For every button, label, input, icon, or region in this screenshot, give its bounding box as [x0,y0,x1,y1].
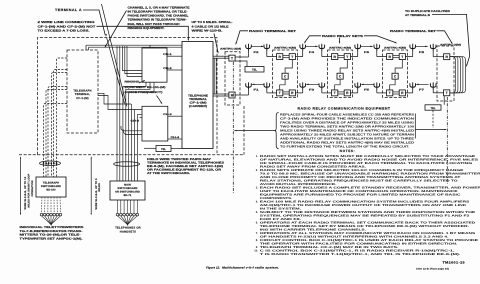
antenna: left terminal transmit [246,44,252,51]
svg-text:BD-100: BD-100 [46,188,56,191]
paragraph: radio relay communication equipment description [280,112,415,148]
terminal A outer dashed enclosure (left/top/right edges) [38,38,218,155]
receiver R top-left of relay #1 [277,54,283,60]
svg-text:BD-71: BD-71 [124,194,132,197]
svg-text:RINGING EQUIPMENT.: RINGING EQUIPMENT. [128,26,165,30]
dimension line: 16-mile loop span [20,158,22,215]
antenna: right terminal transmit [430,82,436,89]
dashed vertical from AN/TRC-3 set down to site boundary [243,106,245,155]
wire: stub above ringing unit1 a [149,45,151,48]
control box C of relay #2 [337,73,343,79]
svg-text:10.: 10. [254,250,258,253]
radio link F2 (A to B) [251,45,263,47]
svg-text:WIRE W-110-B.: WIRE W-110-B. [192,28,223,32]
leader from channel note to telegraph terminal [105,11,126,47]
terminal A site boundary bottom dashed edge [19,154,244,156]
svg-text:TO FURTHER EXTEND THE TOTAL LE: TO FURTHER EXTEND THE TOTAL LENGTH OF TH… [280,144,409,148]
svg-text:AGO 10-B (Face page 45): AGO 10-B (Face page 45) [416,267,449,270]
svg-text:TYPEWRITER SET AN/PGC-1(M).: TYPEWRITER SET AN/PGC-1(M). [20,237,83,240]
wire: ringing unit1 drop b [126,82,150,181]
svg-text:6.: 6. [256,222,258,225]
antenna SW of relay #1 [264,82,270,89]
svg-text:T: T [231,56,233,60]
wire: bundle riser into ringing unit2 b [140,117,143,119]
wire: T down to C of relay #3 [395,60,402,74]
box: TEL (telephone EE-8 at terminal A) [156,146,171,152]
wire: stub into ringing unit2 d [124,130,143,135]
radio relay set AN/TRC-4(M) #2 dashed enclosure [328,50,353,98]
radio set: terminal set AN/TRC-3 (left) dashed enclosure [225,52,240,105]
leader from duplicate-facilities note to cable bundle [432,14,470,65]
wire+mast NW antenna to R of relay #1 [266,50,268,56]
wire+mast SE antenna to R of relay #2 [357,89,359,93]
svg-text:TEL: TEL [431,107,436,110]
svg-text:TM2601-29: TM2601-29 [443,260,466,264]
transmitter T top-right of relay #1 [289,54,295,60]
antenna SE of relay #2 [355,82,361,89]
wire: stub into ringing unit2 c [121,126,142,131]
antenna NW of relay #3 [374,44,380,51]
svg-text:T: T [346,55,348,59]
svg-text:MITTERS TG-26-(M),OR TELE-: MITTERS TG-26-(M),OR TELE- [20,234,81,237]
svg-text:T IS RADIO TRANSMITTER T-14(M): T IS RADIO TRANSMITTER T-14(M)/TRC-1, AN… [260,253,461,256]
svg-text:CF-2-(M): CF-2-(M) [76,97,89,100]
svg-text:1.: 1. [256,155,258,158]
box: TEL (telephone EE-8 at right radio terminal) [425,105,441,110]
svg-text:5.: 5. [256,211,258,214]
leader radio-relay-sets right arrow [364,36,396,43]
wire: ringing unit1 drop c [129,82,154,181]
box: telegraph switchboard BD-100 [36,177,66,197]
antenna: right terminal receive [430,44,436,51]
wire+mast: R to antenna [235,94,248,96]
wire: channel 3 [168,115,182,117]
wire: T-R coupling bottom of relay #1 [283,91,289,93]
wire: stub above ringing unit1 b [152,46,154,49]
wire: spiral-4 riser a [213,58,215,94]
wire: T-R coupling bottom of relay #2 [338,91,344,93]
wire: channel 1 [167,55,182,57]
svg-text:RADIO RELAY COMMUNICATION EQUI: RADIO RELAY COMMUNICATION EQUIPMENT [298,107,391,111]
svg-text:HANDSETS: HANDSETS [120,230,136,233]
svg-text:(VOICE FREQUENCY): (VOICE FREQUENCY) [125,91,163,94]
wire+mast NE antenna to T of relay #3 [412,50,414,56]
wire+mast NW antenna to R of relay #2 [321,50,323,56]
wire: 2-wire line CF-2 to CF-1 (pair) [86,44,182,46]
antenna NW of relay #2 [319,44,325,51]
wires: telegraph subscriber loops (nested dashed bundle) [57,58,68,177]
leader: radio relay equipment note to order wire (right arrow) [415,129,446,131]
svg-text:T: T [291,55,293,59]
leader radio-relay-sets left arrow [305,36,321,43]
transmitter T (left terminal) [229,55,235,61]
leader radio-terminal-set-left [236,31,248,44]
label (rotated): wire W-110-B up to 16 miles short loop [24,173,34,209]
wire: channel 4 [168,138,182,140]
wire+mast SE antenna to R of relay #3 [412,89,414,93]
radio relay set AN/TRC-4(M) #1 dashed enclosure [273,50,298,98]
radio link F6 (A to B) [360,45,372,47]
label (rotated): wire W-110-B up to 5 miles [95,178,101,210]
receiver R (right terminal) [444,54,450,60]
receiver R top-left of relay #2 [332,54,338,60]
svg-text:AN/TRC-3(M): AN/TRC-3(M) [220,48,241,51]
wire: R-T coupling top of relay #3 [393,55,399,57]
radio link F1 (B to A) [252,83,264,85]
svg-text:RADIO TERMINAL SET: RADIO TERMINAL SET [249,29,296,33]
svg-text:CH-2: CH-2 [163,67,172,70]
svg-text:TERMINAL: TERMINAL [75,93,91,96]
leader ringing label to lower unit [157,96,162,104]
radio relay set AN/TRC-4(M) #3 dashed enclosure [383,50,408,98]
wire+mast NW antenna to R of relay #3 [376,50,378,56]
dashed drop below right TEL [432,110,434,128]
wire: R-T coupling top of relay #2 [338,55,344,57]
svg-text:7.: 7. [256,232,258,235]
leader radio-terminal-set-right [437,31,453,43]
leader: radio relay equipment note to order wire (left arrow) [235,130,277,132]
receiver R bottom-right of relay #1 [289,90,295,96]
radio link F7 (B to A) [417,83,429,85]
svg-text:AT THE SWITCHBOARD.: AT THE SWITCHBOARD. [147,172,190,175]
svg-text:T: T [446,91,448,95]
antenna SE of relay #3 [410,82,416,89]
antenna NW of relay #1 [264,44,270,51]
leader radio-relay-sets middle arrow [339,38,341,43]
wire: bundle riser into ringing unit2 a [137,115,142,181]
box: main switchboard BD-71 [110,181,145,200]
svg-text:T: T [334,91,336,95]
svg-text:RADIO RELAY SETS: RADIO RELAY SETS [322,34,363,38]
wire: feed into ringing unit1 b [125,46,142,74]
svg-text:CH-3: CH-3 [131,119,140,122]
wire: long leader diagonal 2 into channel bundle [107,38,125,103]
brace for equipment paragraph [275,112,279,148]
wire: telegraph terminal to ringing unit2 link [98,96,142,110]
svg-text:TEL: TEL [161,148,166,151]
wire: T-R coupling bottom of relay #3 [393,91,399,93]
svg-text:TEL: TEL [252,69,257,72]
wire: T to TEL [233,60,235,62]
box: TEL (telephone EE-8 at left radio terminal) [245,67,264,73]
antenna SW of relay #3 [374,82,380,89]
svg-text:T: T [279,91,281,95]
receiver R bottom-right of relay #2 [344,90,350,96]
svg-text:RADIO TERMINAL SET: RADIO TERMINAL SET [390,29,436,33]
antenna SE of relay #1 [300,82,306,89]
svg-text:TO EXCEED A 7-DB LOSS.: TO EXCEED A 7-DB LOSS. [38,28,90,32]
transmitter T bottom-left of relay #3 [387,90,393,96]
svg-text:8.: 8. [256,239,258,242]
svg-text:TG-7-B,REPERFORATOR-TRANS-: TG-7-B,REPERFORATOR-TRANS- [20,230,83,233]
svg-text:OPERATION: OPERATION [31,180,34,196]
transmitter T top-right of relay #3 [399,54,405,60]
wires: teletypewriter fan with instrument rings [41,197,44,213]
transmitter T (right terminal) [444,90,450,96]
wires: carrier bundle long verticals [116,46,118,181]
wires: spiral-4 bundle to duplicate facilities at terminal B [450,57,455,93]
svg-text:CH-4: CH-4 [171,136,180,139]
wire: spiral-4 riser b [215,58,217,94]
control box C of relay #1 [282,73,288,79]
antenna SW of relay #2 [319,82,325,89]
wire: R-T coupling top of relay #1 [283,55,289,57]
wire: long leader diagonal 1 into channel bundle [102,4,127,106]
wire: feed into ringing unit1 a [122,46,142,71]
antenna NE of relay #1 [300,44,306,51]
wire: ringing unit1 drop a [123,82,146,181]
radio link F5 (B to A) [362,83,374,85]
leader ringing label to upper unit [139,81,145,83]
wire: 4-wire pair telephone terminal to R [213,93,229,95]
wire: EE-8 order wire (dash-dot) from left radio terminal [232,62,234,194]
svg-text:TO DUPLICATE FACILITIES: TO DUPLICATE FACILITIES [405,10,450,13]
wire+mast SW antenna to T of relay #2 [321,89,323,93]
transmitter T top-right of relay #2 [344,54,350,60]
wire: T to TEL (right) [443,96,445,105]
svg-text:AN/TRC-4(M): AN/TRC-4(M) [329,46,351,49]
svg-text:NOTES:: NOTES: [340,149,356,153]
svg-text:RINGING: RINGING [125,80,140,83]
cable tie on telegraph loop bundle [40,161,61,166]
receiver R (left terminal) [229,92,235,98]
wire+mast: antenna to T (right terminal) [432,89,434,93]
antenna: left terminal receive [246,82,252,89]
wire+mast NE antenna to T of relay #1 [302,50,304,56]
radio link F4 (A to B) [305,45,317,47]
svg-text:T: T [401,55,403,59]
svg-text:TELEPHONES OR: TELEPHONES OR [115,227,141,230]
svg-text:2.: 2. [256,169,258,172]
wire+mast SW antenna to T of relay #1 [266,89,268,93]
svg-text:INDIVIDUAL TELETYPEWRITERS: INDIVIDUAL TELETYPEWRITERS [20,226,84,229]
svg-text:TELEGRAPH: TELEGRAPH [73,90,91,93]
svg-text:TERMINAL A: TERMINAL A [55,8,82,12]
wire: TEL to telephone terminal [171,148,182,150]
svg-text:3.: 3. [256,187,258,190]
cable tie on carrier bundle [114,162,140,167]
wire+mast: antenna to R (right terminal) [432,50,434,56]
svg-text:Figure 12.: Figure 12. [206,265,220,269]
svg-text:4.: 4. [256,201,258,204]
antenna NE of relay #2 [355,44,361,51]
transmitter T bottom-left of relay #1 [277,90,283,96]
svg-text:AT TERMINAL B: AT TERMINAL B [405,14,430,17]
svg-text:AN/TRC-4(M): AN/TRC-4(M) [274,46,296,49]
transmitter T bottom-left of relay #2 [332,90,338,96]
wire: C down to T of relay #1 [280,79,285,90]
leader from 2-wire note to 2-wire pair [97,26,189,40]
receiver R top-left of relay #3 [387,54,393,60]
box: ringing equipment upper unit [142,48,167,82]
radio link F3 (B to A) [307,83,319,85]
wire+mast SE antenna to R of relay #1 [302,89,304,93]
svg-text:WIRE W-110-B, UP TO 5: WIRE W-110-B, UP TO 5 [95,178,98,210]
wire+mast SW antenna to T of relay #3 [376,89,378,93]
wire: 4-wire pair telephone terminal to T [213,55,229,57]
antenna NE of relay #3 [410,44,416,51]
box: telephone terminal CF-1-(M) carrier [182,42,213,149]
wire: T down to C of relay #1 [285,60,292,74]
svg-text:(CARRIER): (CARRIER) [189,105,207,108]
svg-text:Multichannel v-h-f radio syste: Multichannel v-h-f radio system. [222,265,279,269]
radio link F8 (A to B) [415,45,427,47]
notes list 1-10 [254,155,480,256]
box: ringing equipment lower unit [142,106,168,141]
leader from TERMINAL A to terminal-A dashed enclosure [83,10,105,35]
wire+mast: T to antenna [235,56,248,58]
svg-text:MILES: MILES [98,183,101,192]
dimension line: 5-mile phone span [90,158,92,215]
wire: feed into ringing unit1 c [127,46,142,77]
radio set: terminal set AN/TRC-3 (right) dashed enclosure [437,46,454,101]
wire: EE-8 order wire (dash-dot) right [446,97,448,185]
box: telegraph terminal CF-2-(M) [67,50,98,133]
leader from spiral-4 note to cable pair [214,34,218,53]
wire: C down to T of relay #2 [335,79,340,90]
svg-text:T: T [389,91,391,95]
svg-text:CH-1: CH-1 [163,53,172,56]
right rule of equipment paragraph [414,114,416,139]
control box C of relay #3 [392,73,398,79]
svg-text:CH-3: CH-3 [163,113,172,116]
wire+mast NE antenna to T of relay #2 [357,50,359,56]
wire: C down to T of relay #3 [390,79,395,90]
wire: T down to C of relay #2 [340,60,347,74]
receiver R bottom-right of relay #3 [399,90,405,96]
svg-text:AN/TRC-4(M): AN/TRC-4(M) [384,46,406,49]
wires: telephone fan with instrument rings [117,200,119,213]
wire: channel 2 [167,69,182,71]
